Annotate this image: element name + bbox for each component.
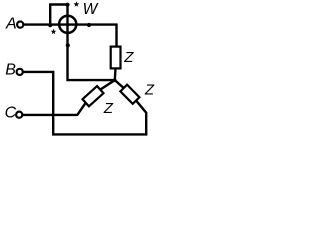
impedance Z3 (phase B branch, diagonal right) (120, 85, 139, 104)
svg-text:Z: Z (144, 82, 155, 99)
svg-text:B: B (5, 62, 16, 79)
impedance Z1 (phase A, vertical) (111, 47, 121, 69)
polarity star at voltage coil terminal (74, 1, 80, 7)
wire: phase A line from terminal A to corner, down to Z1 top (23, 25, 116, 47)
wire: phase B line, down, along bottom, up right side, diagonal to node N (23, 72, 146, 134)
svg-text:A: A (5, 16, 17, 33)
terminal B (17, 69, 23, 75)
junction dot: voltage coil top terminal (65, 3, 69, 7)
svg-text:Z: Z (103, 100, 114, 117)
wire: stub from Z1 bottom to node N (114, 68, 117, 80)
wire: wattmeter vertical coil line down to neutral wire, right to node N (68, 5, 115, 81)
terminal C (16, 112, 22, 118)
svg-text:W: W (83, 1, 99, 18)
op wattmeter U1 circle with crossed coils (59, 16, 76, 33)
svg-text:C: C (5, 105, 17, 122)
wire: phase C line from terminal C to corner, diagonal up to node N (22, 80, 115, 115)
node N (star point) (113, 79, 117, 83)
polarity star at current coil terminal (51, 29, 57, 35)
svg-text:Z: Z (123, 49, 134, 66)
junction dot: voltage loop tap on line A (48, 23, 52, 27)
terminal A (17, 22, 23, 28)
junction dot: voltage coil bottom terminal (66, 43, 70, 47)
impedance Z2 (phase C branch, diagonal left) (83, 86, 104, 106)
wire: wattmeter voltage-coil loop (tap on line A up and over to coil top) (50, 5, 67, 25)
junction dot: current coil right terminal (87, 23, 91, 27)
